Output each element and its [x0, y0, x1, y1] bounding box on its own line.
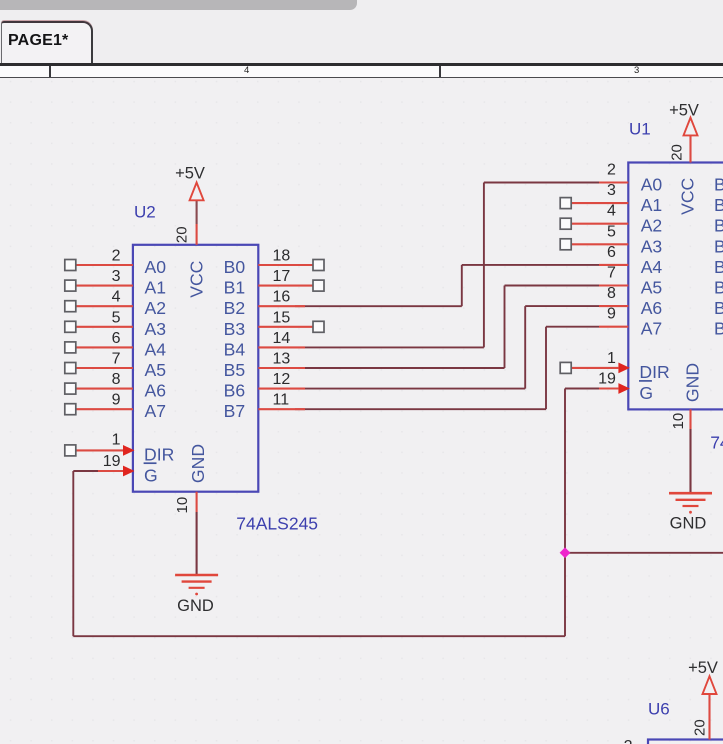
svg-text:U2: U2 [134, 203, 156, 222]
svg-text:VCC: VCC [186, 260, 206, 297]
svg-text:A7: A7 [641, 319, 663, 339]
svg-text:U6: U6 [648, 700, 670, 719]
svg-text:15: 15 [273, 309, 291, 326]
svg-text:A4: A4 [641, 257, 663, 277]
svg-text:9: 9 [112, 392, 121, 409]
svg-text:B1: B1 [714, 195, 723, 215]
svg-text:2: 2 [607, 162, 616, 179]
svg-text:B6: B6 [224, 381, 246, 401]
svg-text:20: 20 [669, 144, 686, 161]
svg-text:19: 19 [103, 453, 121, 470]
svg-text:VCC: VCC [678, 177, 698, 214]
svg-text:B5: B5 [224, 360, 246, 380]
svg-text:1: 1 [112, 432, 121, 449]
svg-text:A0: A0 [641, 175, 663, 195]
svg-text:4: 4 [607, 203, 616, 220]
svg-text:A0: A0 [145, 257, 167, 277]
svg-text:1: 1 [607, 350, 616, 367]
svg-text:+5V: +5V [688, 659, 718, 677]
svg-text:GND: GND [683, 363, 703, 402]
svg-text:11: 11 [273, 392, 290, 409]
svg-text:B7: B7 [714, 319, 723, 339]
svg-text:6: 6 [112, 330, 121, 347]
svg-text:A5: A5 [641, 278, 663, 298]
svg-text:A6: A6 [641, 298, 663, 318]
svg-text:5: 5 [607, 223, 616, 240]
svg-text:A2: A2 [145, 298, 167, 318]
svg-text:B3: B3 [224, 319, 246, 339]
svg-text:A7: A7 [145, 401, 167, 421]
svg-text:3: 3 [607, 182, 616, 199]
svg-text:B2: B2 [714, 216, 723, 236]
svg-text:A5: A5 [145, 360, 167, 380]
svg-text:B4: B4 [714, 257, 723, 277]
svg-text:+5V: +5V [175, 165, 205, 183]
svg-text:DIR: DIR [639, 362, 669, 382]
svg-text:GND: GND [177, 597, 214, 615]
svg-text:G: G [639, 383, 653, 403]
svg-text:7: 7 [112, 351, 121, 368]
svg-text:5: 5 [112, 309, 121, 326]
svg-text:DIR: DIR [144, 445, 174, 465]
svg-text:A3: A3 [145, 319, 167, 339]
svg-text:10: 10 [670, 413, 687, 430]
svg-text:B6: B6 [714, 298, 723, 318]
svg-text:B0: B0 [714, 175, 723, 195]
svg-text:A1: A1 [641, 195, 663, 215]
svg-text:8: 8 [112, 371, 121, 388]
svg-text:A2: A2 [641, 216, 663, 236]
svg-text:9: 9 [607, 306, 616, 323]
svg-text:B2: B2 [224, 298, 246, 318]
svg-text:A1: A1 [145, 278, 167, 298]
svg-text:B3: B3 [714, 236, 723, 256]
svg-text:U1: U1 [629, 120, 651, 139]
svg-text:6: 6 [607, 244, 616, 261]
svg-text:B1: B1 [224, 278, 246, 298]
svg-text:13: 13 [273, 351, 291, 368]
svg-text:4: 4 [112, 289, 121, 306]
svg-text:B7: B7 [224, 401, 246, 421]
svg-text:74ALS245: 74ALS245 [236, 514, 318, 534]
svg-text:A6: A6 [145, 381, 167, 401]
svg-text:19: 19 [598, 371, 616, 388]
svg-text:17: 17 [273, 268, 291, 285]
svg-text:+5V: +5V [669, 102, 699, 120]
svg-text:B0: B0 [224, 257, 246, 277]
svg-text:74ALS245: 74ALS245 [710, 433, 723, 453]
svg-text:G: G [144, 466, 158, 486]
svg-text:8: 8 [607, 285, 616, 302]
svg-text:12: 12 [273, 371, 291, 388]
svg-text:14: 14 [273, 330, 291, 347]
svg-text:20: 20 [174, 226, 191, 243]
svg-text:GND: GND [188, 444, 208, 483]
svg-text:18: 18 [273, 248, 291, 265]
svg-text:B5: B5 [714, 278, 723, 298]
svg-text:A4: A4 [145, 339, 167, 359]
svg-text:10: 10 [174, 497, 191, 514]
svg-text:2: 2 [112, 248, 121, 265]
svg-text:20: 20 [692, 719, 709, 736]
svg-text:7: 7 [607, 265, 616, 282]
svg-text:GND: GND [670, 515, 707, 533]
svg-text:2: 2 [624, 738, 633, 744]
svg-text:3: 3 [112, 268, 121, 285]
svg-text:A3: A3 [641, 236, 663, 256]
svg-text:16: 16 [273, 289, 291, 306]
svg-text:B4: B4 [224, 339, 246, 359]
